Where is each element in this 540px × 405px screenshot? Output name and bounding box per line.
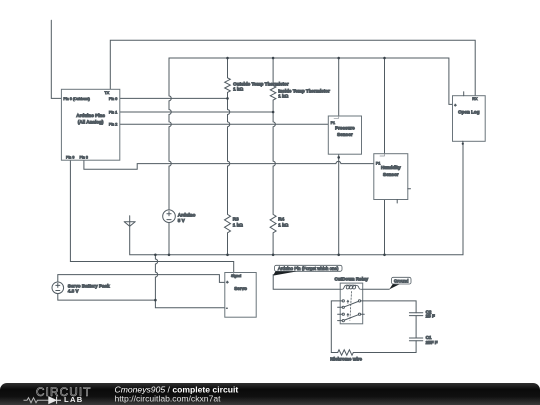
svg-text:+: + <box>226 281 228 285</box>
CircuitLab logo: resistor squiggle and diode <box>24 398 49 403</box>
voltage source V1 Arduino 5V <box>163 210 176 223</box>
svg-text:Sensor: Sensor <box>337 132 353 137</box>
svg-text:Pin 3: Pin 3 <box>80 155 88 159</box>
wire: pressure sensor top supply lead <box>338 58 340 116</box>
svg-text:+: + <box>454 103 456 107</box>
svg-text:TX: TX <box>105 91 110 95</box>
wire: column of inside thermistor / R4 (with hops) <box>270 58 276 255</box>
relay coil <box>340 285 363 289</box>
wire: battery plus row to servo plus pin <box>58 275 225 283</box>
svg-text:1 kΩ: 1 kΩ <box>278 222 288 227</box>
svg-text:1 kΩ: 1 kΩ <box>233 222 243 227</box>
wire: humidity unused bottom stub <box>396 200 398 204</box>
svg-text:Humidity: Humidity <box>381 165 401 170</box>
svg-text:Signal: Signal <box>231 274 241 278</box>
wire: humidity sensor bottom lead to ground rail <box>384 200 386 255</box>
svg-text:Ground: Ground <box>394 278 409 283</box>
relay switch 1 contacts <box>342 300 344 302</box>
svg-text:Pin 2: Pin 2 <box>109 123 117 127</box>
ground (antenna-style symbol) <box>124 222 135 227</box>
svg-text:Pin 0: Pin 0 <box>109 97 117 101</box>
svg-text:Pin 9: Pin 9 <box>66 155 74 159</box>
wire: open log top stub <box>463 92 465 96</box>
svg-text:(All Analog): (All Analog) <box>78 120 104 125</box>
svg-text:Arduino: Arduino <box>178 212 196 217</box>
wire: relay NO contact loop left side down to nichrome <box>331 301 342 353</box>
svg-text:R4: R4 <box>278 216 284 221</box>
svg-text:Pressure: Pressure <box>335 125 355 130</box>
node: open log bottom pin <box>462 143 464 145</box>
svg-text:R3: R3 <box>233 216 239 221</box>
node: battery minus / ground branch <box>154 299 157 302</box>
svg-text:Arduino Pin (Forget which one): Arduino Pin (Forget which one) <box>278 266 339 271</box>
svg-text:4.8 V: 4.8 V <box>68 289 80 294</box>
Humidity Sensor box <box>374 154 408 200</box>
svg-text:Nichrome wire: Nichrome wire <box>330 356 362 361</box>
relay switch 2 contacts <box>342 313 344 315</box>
wire: column of outside thermistor / R3 (with hops over pin rows) <box>225 58 231 255</box>
svg-text:CutDown Relay: CutDown Relay <box>334 276 368 281</box>
svg-text:Sensor: Sensor <box>383 172 399 177</box>
svg-text:Open Log: Open Log <box>458 109 480 114</box>
capacitor C2 <box>409 313 422 316</box>
capacitor C1 <box>409 338 422 341</box>
wire: humidity sensor top supply lead <box>384 58 386 154</box>
resistor: Nichrome wire zigzag <box>338 350 416 355</box>
wire: Arduino Pin 3 row to humidity sensor P1 pin (hop over pressure lead) <box>84 160 374 169</box>
svg-text:25 F: 25 F <box>426 314 435 319</box>
wire: battery minus row joining ground branch <box>58 294 156 301</box>
wire: from Arduino pin flag down to relay coil left <box>273 275 340 290</box>
svg-text:Pin 1: Pin 1 <box>109 110 117 114</box>
wire: relay unused right stub <box>361 313 365 315</box>
node: pressure sensor bottom pin <box>337 156 340 159</box>
svg-text:P1: P1 <box>376 162 381 166</box>
wire: relay coil right to ground flag <box>363 288 390 290</box>
wire: +5V rail from supply top across thermistors and sensors to Open Log + pin <box>169 58 453 210</box>
svg-text:Pin 6 (Cutdown): Pin 6 (Cutdown) <box>63 97 89 101</box>
Open Log box <box>453 96 486 142</box>
svg-text:25F F: 25F F <box>426 340 438 345</box>
svg-text:http://circuitlab.com/ckxn7at: http://circuitlab.com/ckxn7at <box>115 394 222 404</box>
svg-text:1 kΩ: 1 kΩ <box>233 86 243 91</box>
wire: Arduino Pin 1 row to inside thermistor bottom <box>120 111 273 113</box>
wire: humidity unused right stub <box>408 188 411 190</box>
Pressure Sensor box <box>328 116 361 154</box>
flag label: Ground <box>389 277 411 289</box>
flag label: Arduino Pin (Forget which one) <box>273 265 342 275</box>
wire: Arduino Pin 0 row to outside thermistor bottom <box>120 97 228 99</box>
svg-text:Arduino Pins: Arduino Pins <box>76 113 105 118</box>
wire: TX net from Arduino TX top pin to Open Log RX top pin <box>110 40 475 95</box>
svg-text:RX: RX <box>472 97 478 101</box>
wire: open log bottom pin stub <box>462 141 464 144</box>
svg-text:5 V: 5 V <box>178 218 186 223</box>
svg-text:Servo: Servo <box>234 286 247 291</box>
wire: Arduino Pin 2 row to pressure sensor P1 pin <box>120 123 328 125</box>
wire: Arduino Pin 9 to servo signal (top pin) <box>70 160 233 272</box>
relay actuation dashed link <box>350 292 352 321</box>
wire: relay unused left stubs <box>338 307 343 320</box>
Arduino Pins box U1 <box>61 89 119 160</box>
wire: pressure sensor bottom lead to ground rail <box>338 154 340 255</box>
svg-text:LAB: LAB <box>64 395 84 404</box>
voltage source V2 Servo Battery Pack 4.8V <box>52 282 64 294</box>
relay K1 CutDown Relay box <box>340 283 363 324</box>
node: 5V rail junctions <box>226 57 229 60</box>
wire: ground branch to servo minus with hops over pin9 and battery rows <box>155 255 224 308</box>
svg-text:1 kΩ: 1 kΩ <box>278 93 288 98</box>
Servo box <box>225 273 256 318</box>
node: ground rail junctions <box>154 254 157 257</box>
wire: 5V supply bottom lead to ground rail <box>168 223 170 255</box>
wire: ground rail from ground symbol to Open Log bottom pin <box>130 141 463 255</box>
node: Pin0 / outside thermistor <box>226 97 229 100</box>
wire: Pin 6 cutdown stub from top-left down into Arduino Pin 6 <box>51 20 61 98</box>
node: Pin1 / inside thermistor <box>272 111 275 114</box>
wire: right side of loop through C1 and C2 to relay common <box>361 301 417 353</box>
